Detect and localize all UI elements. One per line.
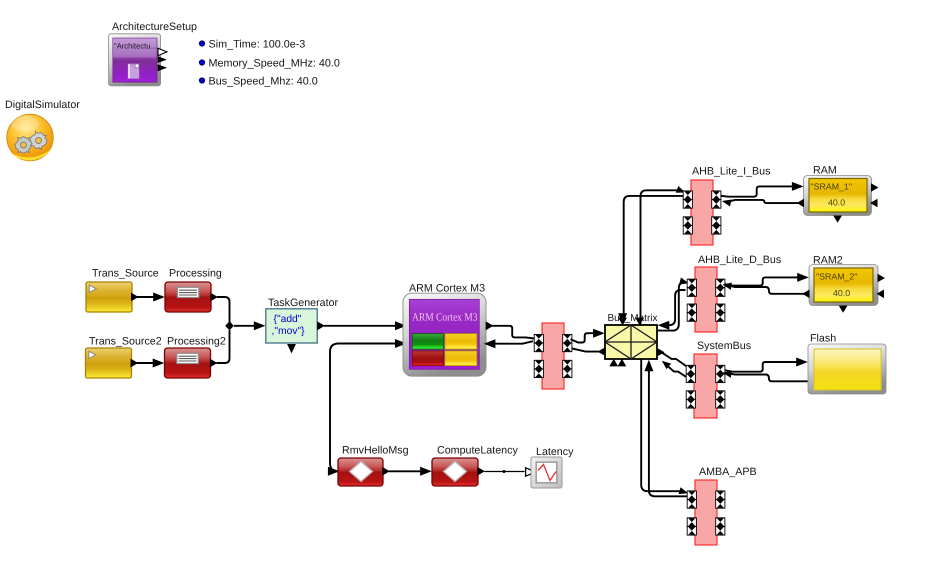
ports AMBA_APB left xyxy=(687,491,696,500)
port RAM right in xyxy=(870,199,878,208)
icon zigzag Latency xyxy=(538,465,556,481)
parameter bullet Sim_Time xyxy=(199,41,204,46)
block Flash body xyxy=(814,349,881,390)
parameter bullet Memory_Speed_MHz xyxy=(199,60,204,65)
wire BusMatrix to SystemBus xyxy=(662,352,690,368)
port ComputeLatency out xyxy=(477,467,485,476)
wire TaskGenerator to ARM xyxy=(324,325,396,327)
icon gear2 DigitalSimulator xyxy=(28,130,50,152)
port RAM left out xyxy=(797,199,804,208)
wire tree to ARM input2 and RmvHelloMsg xyxy=(330,344,395,472)
wire AHB_Lite_I_Bus to RAM xyxy=(721,186,793,196)
block Latency frame xyxy=(531,457,562,488)
block adapter xyxy=(542,323,564,389)
block ARM purple body xyxy=(409,299,479,369)
block RAM frame xyxy=(804,176,872,216)
ports AMBA_APB right xyxy=(716,491,725,500)
port RAM2 right out xyxy=(878,274,886,283)
port BusMatrix top in arrows xyxy=(618,318,627,326)
port RAM2 right in xyxy=(877,290,885,299)
block ARM frame xyxy=(403,293,486,376)
tile yellow top xyxy=(445,334,477,350)
icon document in ArchitectureSetup xyxy=(128,64,139,79)
block RAM2 frame xyxy=(809,265,878,306)
wire BusMatrix to adapter (return) xyxy=(572,348,599,351)
svg-text:Processing: Processing xyxy=(169,268,222,280)
icon play Trans_Source xyxy=(89,285,96,292)
port ArchitectureSetup out1 (hollow) xyxy=(158,48,167,55)
svg-text:Latency: Latency xyxy=(536,446,574,458)
parameter bullet Bus_Speed_Mhz xyxy=(199,78,204,83)
svg-text:AHB_Lite_D_Bus: AHB_Lite_D_Bus xyxy=(698,254,781,266)
ports AHB_Lite_D_Bus right xyxy=(716,279,725,288)
icon gear1 DigitalSimulator xyxy=(15,137,32,154)
port RAM2 left out xyxy=(802,290,809,299)
svg-text:ARM Cortex M3: ARM Cortex M3 xyxy=(412,311,478,323)
svg-text:Memory_Speed_MHz: 40.0: Memory_Speed_MHz: 40.0 xyxy=(209,57,340,69)
icon list Processing xyxy=(177,287,198,297)
wire Flash return to SystemBus xyxy=(728,373,808,381)
tile green xyxy=(412,334,443,350)
svg-text:Sim_Time: 100.0e-3: Sim_Time: 100.0e-3 xyxy=(209,38,306,50)
svg-text:Trans_Source2: Trans_Source2 xyxy=(89,336,162,348)
icon play Trans_Source2 xyxy=(89,351,96,358)
ports SystemBus left xyxy=(686,365,695,374)
icon diamond RmvHelloMsg xyxy=(350,462,373,482)
svg-text:Flash: Flash xyxy=(810,333,836,345)
svg-text:"Architectu...: "Architectu... xyxy=(114,42,157,51)
block AHB_Lite_I_Bus xyxy=(691,180,713,245)
port BusMatrix bottom markers xyxy=(609,359,618,367)
svg-text:Trans_Source: Trans_Source xyxy=(92,268,159,280)
wire AHB_Lite_I_Bus return to BusMatrix xyxy=(624,196,683,318)
port TaskGenerator out right xyxy=(317,321,325,330)
wire AMBA_APB return to BusMatrix xyxy=(649,366,687,496)
port Processing out xyxy=(210,293,218,302)
svg-text:AHB_Lite_I_Bus: AHB_Lite_I_Bus xyxy=(692,166,770,178)
tile yellow bottom xyxy=(445,351,477,366)
port RAM bottom xyxy=(833,216,842,223)
wire Trans_Source to Processing xyxy=(137,296,154,298)
block AHB_Lite_D_Bus xyxy=(695,267,717,332)
block Processing xyxy=(165,282,211,312)
wire SystemBus to Flash xyxy=(725,362,797,372)
icon diamond ComputeLatency xyxy=(444,462,467,482)
port Processing2 out xyxy=(210,359,218,368)
svg-text:ARM Cortex M3: ARM Cortex M3 xyxy=(409,283,485,295)
wire RmvHelloMsg to ComputeLatency xyxy=(389,470,421,472)
wire Processing2 to junction xyxy=(217,330,230,363)
port RAM right out xyxy=(871,183,879,192)
block Trans_Source xyxy=(86,282,132,312)
port ArchitectureSetup out3 xyxy=(158,64,167,71)
wire Processing to junction xyxy=(217,297,230,322)
port TaskGenerator out bottom xyxy=(287,344,296,353)
wire BusMatrix to AHB_Lite_I_Bus (up pair) xyxy=(641,190,680,325)
block Processing2 xyxy=(165,348,211,378)
block Trans_Source2 xyxy=(86,348,132,378)
port RmvHelloMsg out xyxy=(382,467,390,476)
wire RAM return to AHB_Lite_I_Bus xyxy=(728,200,804,203)
port BusMatrix left out xyxy=(597,347,605,355)
svg-text:RAM: RAM xyxy=(813,165,837,177)
block Bus_Matrix xyxy=(605,325,657,359)
port Trans_Source2 out xyxy=(131,359,139,368)
svg-text:Processing2: Processing2 xyxy=(167,336,226,348)
port ArchitectureSetup out2 xyxy=(158,56,167,63)
svg-text:{"add": {"add" xyxy=(274,314,302,325)
svg-text:ComputeLatency: ComputeLatency xyxy=(437,445,518,457)
svg-text:40.0: 40.0 xyxy=(833,288,850,298)
svg-text:,"mov"}: ,"mov"} xyxy=(272,326,306,337)
ports AHB_Lite_I_Bus left xyxy=(683,191,692,200)
block Flash frame xyxy=(808,344,886,394)
block ArchitectureSetup frame xyxy=(109,34,161,86)
wire RAM2 return to AHB_Lite_D_Bus xyxy=(728,285,809,294)
ports SystemBus right xyxy=(716,365,725,374)
block DigitalSimulator sphere xyxy=(7,114,53,160)
block RmvHelloMsg xyxy=(338,458,383,486)
block SystemBus xyxy=(694,354,717,418)
block RAM body xyxy=(809,179,867,213)
svg-text:"SRAM_1": "SRAM_1" xyxy=(811,182,852,192)
tile red xyxy=(412,351,443,366)
ports AHB_Lite_I_Bus right xyxy=(712,191,721,200)
svg-text:Bus_Speed_Mhz: 40.0: Bus_Speed_Mhz: 40.0 xyxy=(209,75,318,87)
wire ComputeLatency to Latency xyxy=(485,471,525,473)
wire AHB_Lite_D_Bus to RAM2 xyxy=(725,277,798,285)
wire adapter to ARM (return) xyxy=(495,341,533,344)
wire BusMatrix to AMBA_APB xyxy=(641,359,683,491)
port Trans_Source out xyxy=(131,293,139,302)
svg-text:RmvHelloMsg: RmvHelloMsg xyxy=(342,445,409,457)
ports adapter right xyxy=(563,334,572,343)
svg-text:TaskGenerator: TaskGenerator xyxy=(268,297,339,309)
arrow open into Latency xyxy=(526,468,536,476)
svg-text:40.0: 40.0 xyxy=(828,197,845,207)
wire junction to TaskGenerator xyxy=(234,325,255,327)
ports AHB_Lite_D_Bus left xyxy=(687,279,696,288)
svg-text:SystemBus: SystemBus xyxy=(697,340,751,352)
svg-text:"SRAM_2": "SRAM_2" xyxy=(816,272,857,282)
block Latency plot area xyxy=(536,462,557,483)
wire Trans_Source2 to Processing2 xyxy=(137,362,154,364)
junction node diamond xyxy=(225,321,234,330)
block TaskGenerator xyxy=(266,309,317,343)
wire BusMatrix to AHB_Lite_D_Bus xyxy=(657,282,684,330)
port RAM2 bottom xyxy=(839,306,848,313)
wire adapter to BusMatrix xyxy=(571,333,596,342)
svg-text:ArchitectureSetup: ArchitectureSetup xyxy=(112,21,197,33)
block RAM2 body xyxy=(814,268,873,302)
svg-text:AMBA_APB: AMBA_APB xyxy=(699,466,757,478)
ports adapter left xyxy=(534,334,543,343)
block AMBA_APB xyxy=(695,480,717,545)
svg-text:DigitalSimulator: DigitalSimulator xyxy=(5,99,80,111)
wire SystemBus return to BusMatrix xyxy=(666,365,687,378)
wire AHB_Lite_D_Bus return to BusMatrix xyxy=(668,290,686,325)
wire ARM to adapter xyxy=(493,326,535,339)
block ComputeLatency xyxy=(432,458,478,486)
svg-text:Bus_Matrix: Bus_Matrix xyxy=(608,313,658,324)
icon list Processing2 xyxy=(177,353,198,363)
port ARM out right xyxy=(486,321,494,330)
